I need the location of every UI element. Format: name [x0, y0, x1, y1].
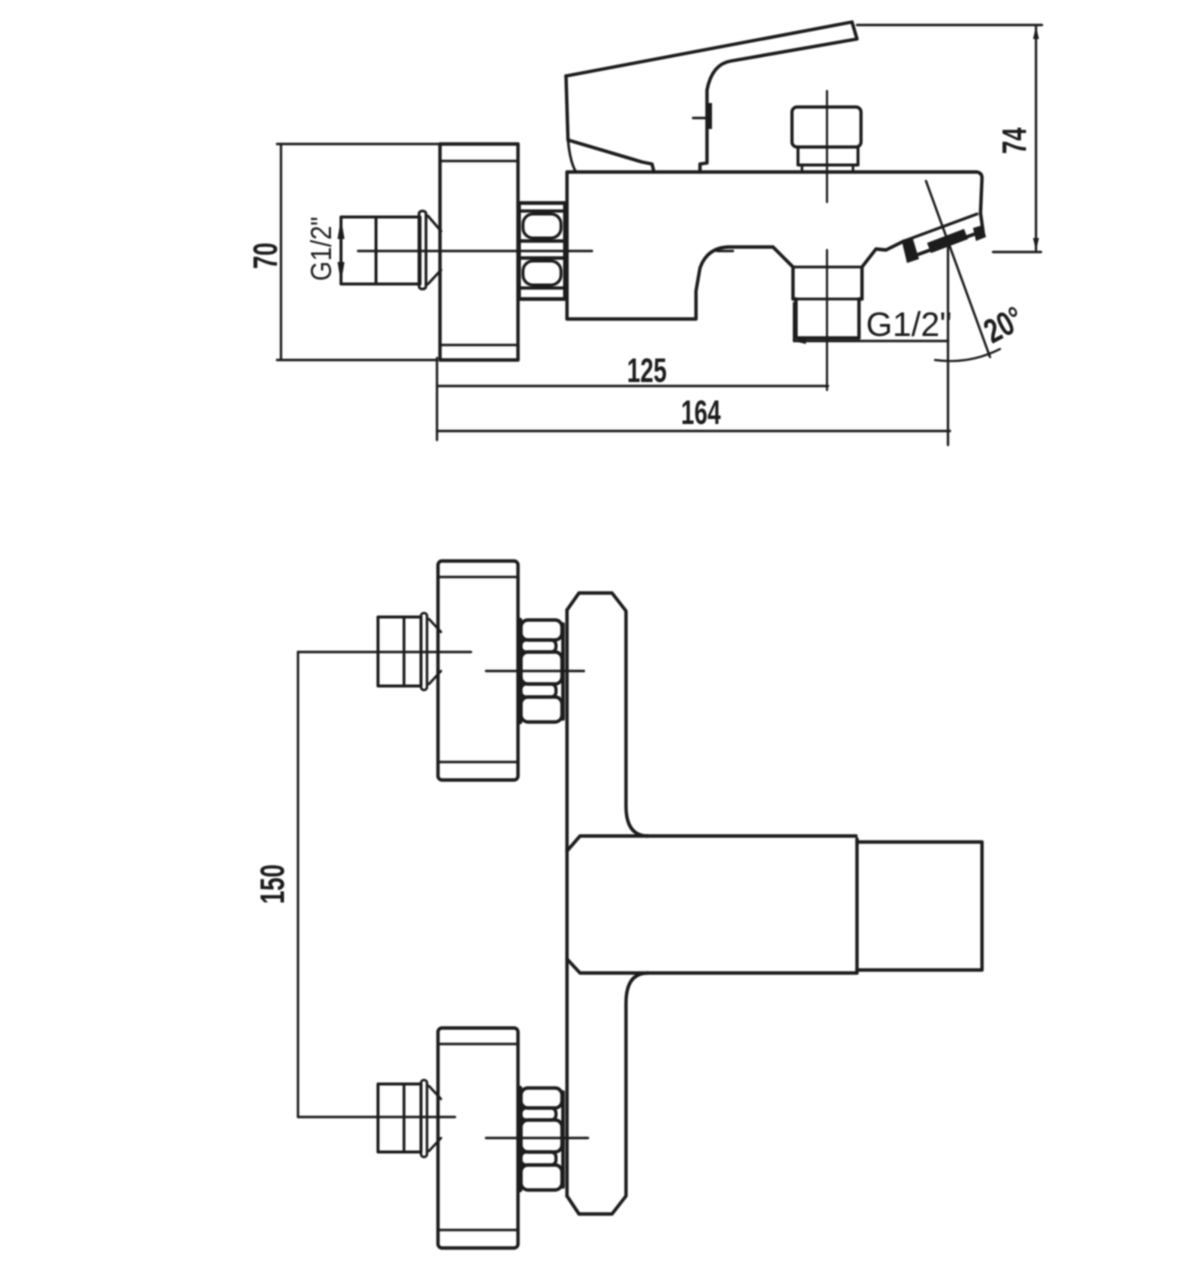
G1/2 outlet label with leader [793, 303, 795, 341]
hex nut side view [519, 203, 565, 299]
bottom inlet front [378, 1084, 421, 1152]
inlet fitting G1/2 side view [341, 217, 420, 284]
svg-text:G1/2": G1/2" [866, 306, 952, 344]
spout front [857, 842, 982, 970]
spout crease line [904, 214, 977, 241]
svg-text:70: 70 [247, 243, 285, 269]
spout funnel inner lines [793, 266, 862, 269]
top inlet front [378, 617, 421, 686]
svg-text:G1/2": G1/2" [304, 217, 337, 281]
handle button detail [693, 117, 708, 119]
top escutcheon front [438, 561, 518, 780]
diverter knob [792, 107, 861, 147]
center line horizontal [358, 250, 592, 252]
inlet thread dim arrows [340, 219, 342, 282]
dim 70 line [280, 144, 282, 360]
bottom union nut front [518, 1088, 523, 1190]
dim 70 extension bottom [277, 359, 436, 361]
dim 150 [298, 651, 471, 653]
svg-text:125: 125 [627, 352, 667, 390]
body side view outline [567, 172, 983, 338]
svg-text:150: 150 [254, 864, 292, 904]
dim 125 [436, 358, 438, 440]
knob / outlet center line [826, 91, 828, 202]
dim 70 extension top [277, 143, 440, 145]
bottom escutcheon front [438, 1028, 518, 1248]
svg-text:164: 164 [681, 394, 721, 432]
dim 74 [857, 24, 1042, 26]
svg-text:74: 74 [996, 127, 1034, 154]
escutcheon side view [440, 144, 518, 360]
handle lever [566, 22, 857, 172]
body plate front [567, 593, 648, 836]
dim 164 [437, 430, 950, 432]
body bar front [567, 836, 856, 851]
20 degree angle lines [926, 181, 990, 357]
aerator dark band [929, 234, 966, 248]
top union nut front [518, 620, 523, 722]
